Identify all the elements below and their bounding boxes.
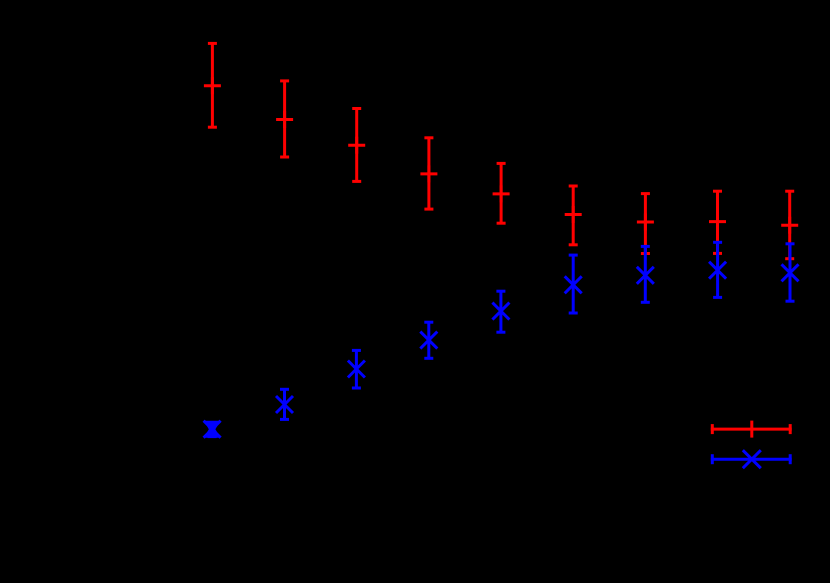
red yerrorbar point 9 [781, 191, 798, 259]
legend red errorbar sample [711, 421, 792, 438]
blue yerrorbar point 2 [276, 389, 293, 419]
blue yerrorbar point 8 [709, 242, 726, 297]
red yerrorbar point 2 [276, 81, 293, 157]
red yerrorbar point 3 [348, 109, 365, 182]
blue yerrorbar point 5 [492, 291, 509, 332]
red yerrorbar point 5 [493, 163, 510, 223]
red yerrorbar point 4 [420, 138, 437, 209]
blue yerrorbar point 7 [637, 246, 654, 302]
blue yerrorbar point 4 [420, 322, 437, 358]
blue yerrorbar point 9 [782, 244, 799, 301]
red yerrorbar point 8 [709, 191, 726, 253]
legend blue errorbar sample [711, 450, 792, 468]
red yerrorbar point 6 [565, 186, 582, 245]
red yerrorbar point 1 [204, 43, 221, 127]
blue yerrorbar point 1 [204, 421, 221, 438]
blue yerrorbar point 3 [348, 350, 365, 388]
red yerrorbar point 7 [637, 194, 654, 254]
blue yerrorbar point 6 [565, 255, 582, 313]
